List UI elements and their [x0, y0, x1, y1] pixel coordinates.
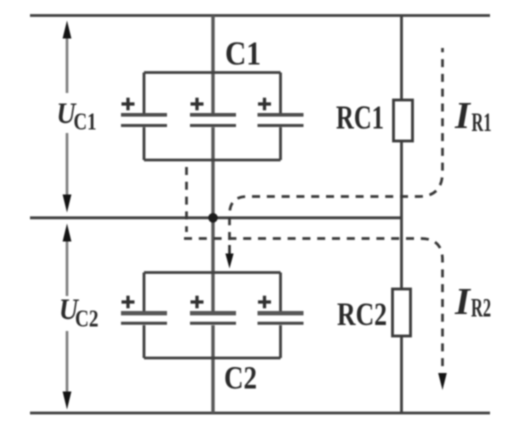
svg-text:C2: C2 [75, 307, 99, 333]
arrow UC2 top head [63, 224, 72, 242]
wire dashed IR2 current path [184, 239, 443, 373]
svg-text:C1: C1 [225, 36, 261, 73]
svg-text:RC2: RC2 [337, 297, 387, 333]
wire dashed IR1 current path [230, 48, 443, 240]
label IR1 [454, 95, 492, 137]
wire right branch vertical [400, 16, 403, 414]
arrow UC2 measurement shaft [66, 238, 69, 395]
resistor RC2 [393, 289, 411, 336]
svg-text:R2: R2 [471, 294, 491, 323]
wire top rail [30, 14, 490, 17]
wire main center vertical [211, 16, 214, 414]
svg-text:I: I [454, 95, 471, 137]
capacitor C1-a plates [121, 115, 167, 126]
svg-text:R1: R1 [472, 108, 492, 137]
arrow into C2 shaft [228, 245, 231, 257]
wire bottom rail [30, 412, 490, 415]
label UC2 [59, 293, 99, 333]
resistor RC1 [394, 100, 413, 141]
capacitor C2-b plus [191, 296, 204, 309]
arrow UC1 measurement shaft [66, 35, 69, 198]
capacitor C1-c plus [258, 98, 271, 111]
capacitor C2-c plus [258, 296, 271, 309]
capacitor C1-a plus [122, 98, 135, 111]
svg-text:I: I [454, 281, 471, 323]
arrow into C2 head [225, 254, 233, 269]
wire middle rail [30, 216, 402, 219]
node junction dot [208, 213, 218, 223]
wire dashed stub from C1 bottom bus [185, 167, 188, 232]
capacitor bank C1 bus frame [144, 73, 281, 161]
arrow UC1 top head [63, 21, 72, 39]
arrow UC2 bottom head [63, 392, 72, 410]
label UC1 [57, 97, 97, 136]
capacitor C1-c plates [258, 115, 304, 126]
capacitor C2-a plus [122, 296, 135, 309]
capacitor C2-b plates [190, 313, 236, 323]
arrow IR2 head [438, 373, 447, 390]
arrow UC1 bottom head [63, 195, 72, 213]
capacitor C1-b plates [190, 115, 236, 126]
label IR2 [454, 281, 491, 323]
svg-text:C1: C1 [74, 110, 97, 136]
capacitor C2-a plates [121, 313, 167, 323]
capacitor bank C2 bus frame [144, 273, 281, 359]
capacitor C2-c plates [258, 313, 304, 323]
capacitor C1-b plus [191, 98, 204, 111]
svg-text:C2: C2 [224, 361, 257, 397]
svg-text:RC1: RC1 [336, 100, 384, 137]
